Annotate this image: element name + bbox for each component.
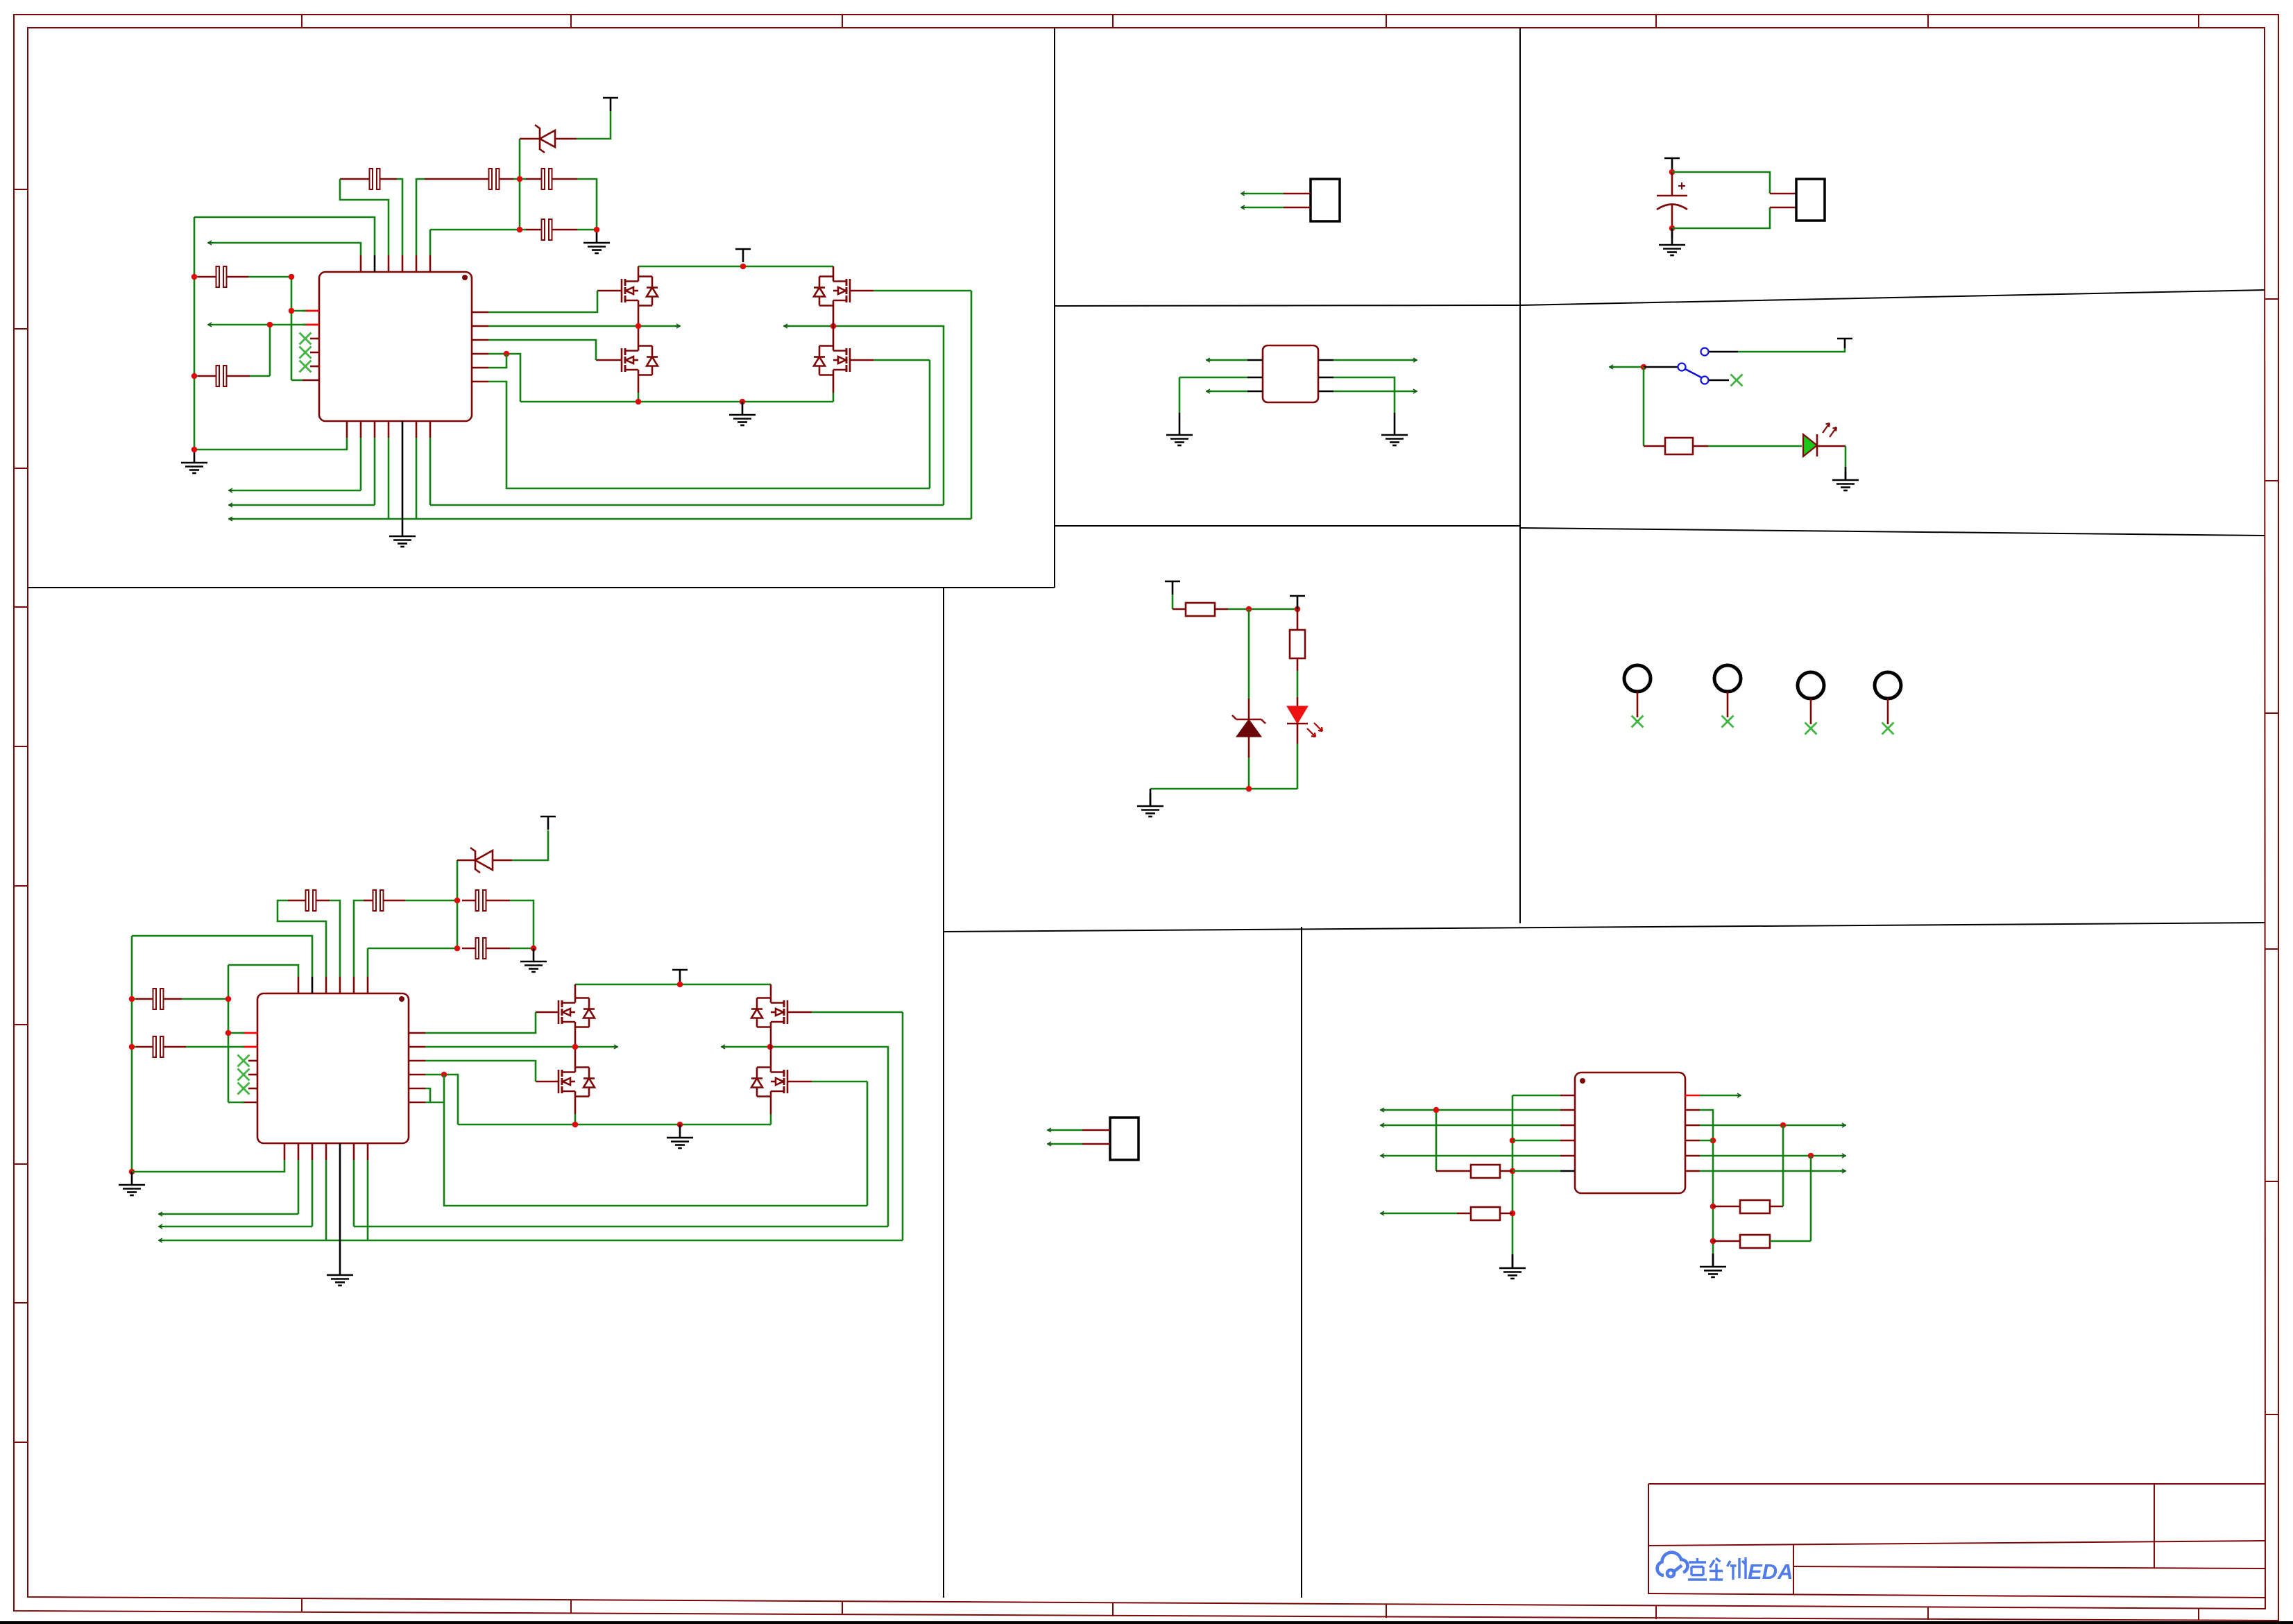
section divider horizontal H3 (1055, 290, 2265, 306)
capacitor C6 (526, 219, 577, 240)
power flag VCC bridge2 (672, 970, 688, 983)
wire switch to VCC (1738, 348, 1845, 352)
wire U2 pin1489 to Q5 gate (425, 1012, 536, 1033)
ground U2 bottom (327, 1262, 353, 1285)
H-bridge top rail (638, 266, 833, 268)
wire C10 left to pin510 (354, 900, 364, 977)
wire D1 anode to VCC (577, 111, 611, 139)
ground AGND (181, 450, 207, 473)
wire zener bottom rail (1150, 788, 1297, 790)
capacitor C12 (462, 938, 510, 959)
wire P2 pin2 (1048, 1143, 1082, 1145)
U1 bottom pins (347, 421, 430, 438)
wire left bus vertical (194, 217, 198, 450)
wire GND row U2 (132, 1160, 284, 1172)
wire U4 right vertical bus (1700, 1110, 1713, 1254)
wire switch down to resistor (1643, 367, 1645, 446)
ground U3 right (1381, 422, 1408, 445)
section divider horizontal H2 (1055, 525, 1520, 527)
wire C5 left (520, 178, 526, 180)
wire C9 left to pin470 (278, 900, 326, 977)
wire pin520 top (208, 243, 361, 255)
wire Q3 gate loop (873, 291, 971, 519)
wire U3 left pin2 to ground (1179, 377, 1247, 413)
wire row1768 (159, 1160, 888, 1226)
transistor Q8 lower-right NMOS (751, 1047, 812, 1125)
wire C4 right to node (513, 139, 520, 230)
wire C8 right to pin1509 (186, 1046, 244, 1048)
P3 pin leads (1770, 194, 1796, 207)
capacitor C4 (425, 169, 513, 189)
mounting hole H1 (1624, 665, 1651, 728)
wire C3 right to pin580 (397, 179, 402, 255)
wire C1 right to U1 (248, 277, 302, 380)
wire U3 left pin1 (1207, 359, 1247, 361)
wire pin1489 (228, 1032, 244, 1034)
bottom black strip (0, 1621, 2293, 1624)
H-bridge bottom rail (520, 401, 833, 403)
IC U4 (1575, 1072, 1685, 1193)
diode D1 schottky (520, 125, 577, 153)
capacitor C3 (340, 169, 397, 189)
wire pin550 loop (488, 382, 930, 488)
wire row728 (229, 438, 944, 505)
diode D2 schottky (457, 848, 512, 873)
wire resistor to LED (1708, 445, 1802, 447)
resistor R1 (1644, 438, 1708, 454)
capacitor C10 (364, 890, 405, 911)
wire U4 right row1666 (1700, 1155, 1846, 1157)
black pin580 to ground (402, 438, 404, 523)
wire row2 pin530 (368, 948, 534, 977)
wire U1 pin450 to Q1 gate (488, 291, 597, 312)
wire U3 left pin3 (1207, 391, 1247, 393)
wire U4 row1644 (1512, 1140, 1560, 1142)
wire C6 right to gnd (577, 229, 597, 231)
connector P2 (1110, 1118, 1139, 1160)
wire AGND to pin450 (132, 936, 312, 977)
wire C7 right node (182, 965, 298, 1102)
power flag VCC zener (1165, 581, 1180, 595)
wire U3 right pin2 to ground (1333, 377, 1395, 413)
wire VCC to R2 (1173, 595, 1186, 609)
red net stubs U2 left pins (244, 1033, 257, 1047)
capacitor C9 (288, 890, 330, 911)
wire left bus vertical U2 (132, 936, 136, 1172)
ground bridge2 (667, 1125, 693, 1148)
U2 right pins (409, 1033, 425, 1102)
wire battery plus to P3 (1672, 172, 1770, 194)
IC U1 (319, 272, 472, 421)
wire phase node A (488, 325, 680, 327)
P1 pin leads (1284, 194, 1311, 207)
wire U4 right pin1579 (1700, 1095, 1741, 1097)
resistor R3 vertical (1290, 609, 1305, 706)
U1 top pins (361, 255, 430, 272)
switch SW1 (1644, 348, 1738, 384)
border zone ticks right (2265, 299, 2278, 1414)
border zone ticks left (14, 189, 28, 1442)
connector P1 (1311, 179, 1340, 221)
wire GND row U1 (194, 438, 347, 450)
wire pin1549 node (425, 1075, 458, 1125)
U1 left pins (302, 311, 319, 380)
section divider vertical V2 (943, 588, 944, 1598)
H-bridge2 bottom rail (458, 1124, 771, 1126)
wire Q7 gate loop (812, 1012, 903, 1240)
resistor R6 (1713, 1125, 1783, 1213)
U2 bottom pins (284, 1143, 368, 1160)
mounting hole H3 (1798, 672, 1824, 735)
wire pin448 (291, 310, 306, 312)
wire P1 pin1 (1241, 193, 1284, 195)
wire U4 row1666 (1381, 1155, 1560, 1157)
ground battery (1659, 228, 1685, 255)
wire phase node B2 (722, 1047, 888, 1226)
wire phase node B (784, 326, 944, 505)
capacitor C2 (198, 366, 250, 386)
wire C9 right to pin490 (330, 900, 340, 977)
U2 left pins (241, 1033, 257, 1102)
section divider vertical V4 (1301, 927, 1302, 1598)
wire C11 right corner (510, 900, 534, 948)
title block frame (1648, 1484, 2265, 1598)
no-connect X pins U2 left (238, 1055, 250, 1067)
junction dots cap rows (517, 176, 523, 182)
capacitor C11 (462, 890, 510, 911)
ground U3 left (1166, 422, 1193, 445)
power flag VCC D1 (603, 98, 618, 111)
wire AGND to pin540 (194, 217, 375, 255)
U4 right pins (1685, 1095, 1700, 1171)
H-bridge2 top rail (575, 984, 771, 986)
mounting hole H2 (1714, 665, 1741, 728)
net port arrow pin520 wire (207, 241, 213, 245)
wire U3 right pin3 (1333, 391, 1417, 393)
power flag VCC D2 (540, 817, 556, 830)
wire U3 right pin1 (1333, 359, 1417, 361)
U2 top pins (298, 977, 368, 993)
transistor Q5 upper-left NMOS (536, 984, 595, 1047)
capacitor CP1 polarized (1657, 172, 1687, 228)
EasyEDA logo (1657, 1553, 1793, 1584)
transistor Q1 upper-left NMOS (597, 266, 658, 326)
wire U1 pin490 to Q2 gate (488, 340, 596, 360)
wire C10 right to node (405, 860, 457, 948)
power flag VCC switch (1837, 339, 1852, 348)
ground U1 bottom (389, 523, 416, 547)
P2 pin leads (1082, 1130, 1110, 1144)
wire U4 right row1622 (1700, 1125, 1846, 1127)
transistor Q3 upper-right NMOS (814, 266, 873, 326)
wire LED cathode to ground (1817, 446, 1846, 480)
red net stubs on U1 left pins (306, 311, 319, 325)
wire pin530 (488, 354, 506, 368)
wire U2 pin1529 to Q6 gate (425, 1061, 536, 1082)
ground bridge (729, 402, 756, 425)
power flag VCC battery (1664, 158, 1680, 171)
border zone ticks top (302, 15, 2199, 28)
U1 right pins (472, 312, 488, 382)
section divider horizontal H1 (28, 587, 1055, 588)
wire P1 pin2 (1241, 207, 1284, 209)
wire U4 left vertical bus (1512, 1095, 1560, 1254)
wire C4 left to pin600 (416, 179, 425, 255)
resistor R7 (1713, 1156, 1811, 1248)
transistor Q7 upper-right NMOS (751, 984, 812, 1047)
no-connect X pins U1 left (300, 333, 312, 345)
wire switch input (1610, 366, 1644, 368)
wire C3 left to pin560 (340, 179, 389, 255)
wire row748 (229, 438, 971, 519)
wire Q8 gate loop (812, 1082, 867, 1206)
section divider horizontal H4 (1520, 528, 2265, 536)
wire row707 (229, 438, 361, 490)
wire phase node A2 (425, 1046, 617, 1048)
capacitor C1 (198, 266, 248, 287)
U4 left pins (1560, 1095, 1575, 1171)
zener diode DZ1 (1232, 609, 1265, 789)
wire row2 pin620 (430, 230, 526, 255)
IC U3 (1263, 345, 1318, 402)
wire row1788 (159, 1160, 903, 1240)
ground zener block (1137, 789, 1163, 817)
LED D3 green (1803, 423, 1836, 456)
LED D4 red (1287, 706, 1322, 789)
black pin490 to ground (339, 1160, 341, 1262)
section divider horizontal H5 (944, 923, 2265, 932)
resistor R2 (1186, 603, 1215, 616)
connector P3 (1796, 179, 1825, 221)
transistor Q4 lower-right NMOS (814, 326, 873, 402)
ground U4 left (1499, 1254, 1526, 1279)
border zone ticks bottom (302, 1598, 2199, 1621)
wire row468 (208, 325, 306, 376)
capacitor C8 (136, 1036, 186, 1057)
IC U2 (257, 993, 409, 1143)
net port arrow row468 (207, 323, 213, 327)
wire battery minus to P3 (1672, 207, 1770, 228)
power flag VCC led branch (1290, 596, 1305, 609)
wire U4 row1622 (1381, 1125, 1560, 1127)
wire pin1569 (425, 1088, 430, 1102)
power flag VCC bridge (735, 249, 751, 262)
ground at C6 (583, 230, 610, 253)
capacitor C5 (526, 169, 577, 189)
junction dots left (191, 274, 198, 280)
no-connect X switch (1731, 375, 1743, 386)
wire U4 row1600 (1381, 1110, 1560, 1171)
wire pin1589 loop (425, 1075, 867, 1206)
capacitor C7 (136, 989, 182, 1009)
ground U4 right (1700, 1254, 1726, 1277)
ground U2 left (119, 1172, 145, 1195)
wire P2 pin1 (1048, 1129, 1082, 1131)
section divider vertical V3 (1519, 28, 1521, 923)
wire C5 right down to C6 (577, 179, 597, 230)
section divider vertical V1 (1054, 28, 1055, 588)
transistor Q6 lower-left NMOS (536, 1047, 595, 1125)
resistor R5 (1381, 1207, 1512, 1220)
wire D2 anode to VCC (512, 830, 548, 860)
svg-text:EDA: EDA (1748, 1559, 1793, 1584)
wire R2 to node (1215, 608, 1297, 610)
wire Q4 gate loop (873, 360, 930, 488)
wire U4 right row1688 (1700, 1170, 1846, 1172)
wire row1750 (159, 1160, 298, 1214)
junction dots U2 cap rows (454, 898, 461, 904)
wire pin510 node (488, 354, 520, 402)
wire U4 right row1644 (1700, 1140, 1713, 1142)
resistor R4 (1436, 1165, 1560, 1178)
ground LED (1832, 467, 1859, 490)
ground U2 caps (520, 948, 547, 972)
U3 pins (1247, 360, 1333, 391)
transistor Q2 lower-left NMOS (596, 326, 658, 402)
mounting hole H4 (1875, 672, 1901, 735)
junction dots U2 left (129, 996, 135, 1002)
